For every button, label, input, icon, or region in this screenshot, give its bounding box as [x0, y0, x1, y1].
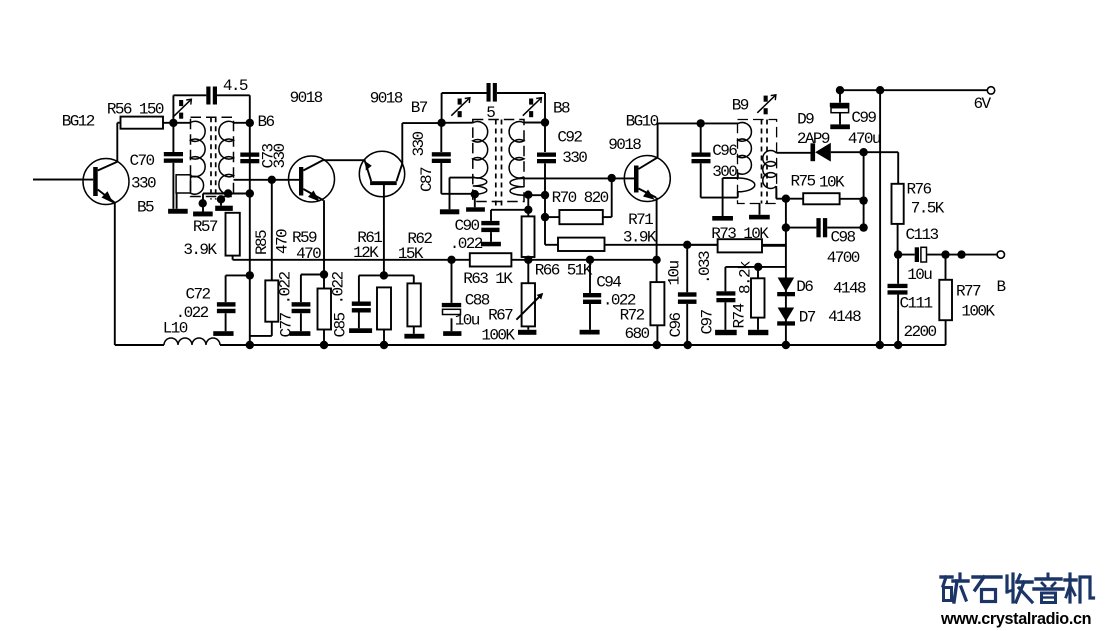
svg-text:5: 5 [486, 104, 495, 122]
svg-text:BG10: BG10 [626, 112, 659, 130]
svg-text:D9: D9 [797, 111, 814, 129]
svg-text:12K: 12K [353, 244, 379, 262]
svg-text:R63 1K: R63 1K [463, 270, 513, 288]
svg-text:10K: 10K [819, 174, 845, 192]
svg-text:.022: .022 [450, 235, 483, 253]
svg-text:330: 330 [410, 131, 428, 156]
svg-text:9018: 9018 [608, 136, 641, 154]
svg-text:B5: B5 [137, 199, 154, 217]
svg-text:B9: B9 [732, 97, 749, 115]
svg-text:680: 680 [625, 325, 650, 343]
svg-text:3.9K: 3.9K [183, 241, 217, 259]
svg-text:R76: R76 [907, 181, 932, 199]
svg-text:15K: 15K [398, 245, 424, 263]
svg-text:www.crystalradio.cn: www.crystalradio.cn [940, 610, 1091, 628]
svg-text:300: 300 [712, 163, 737, 181]
svg-text:470: 470 [274, 229, 292, 254]
svg-text:C96: C96 [667, 312, 685, 337]
svg-text:100K: 100K [481, 327, 515, 345]
svg-text:9018: 9018 [290, 89, 323, 107]
svg-text:R57: R57 [193, 218, 218, 236]
svg-text:C111: C111 [900, 295, 933, 313]
svg-text:R67: R67 [488, 307, 513, 325]
svg-text:C70: C70 [130, 152, 155, 170]
svg-text:6V: 6V [974, 95, 992, 113]
svg-text:.022: .022 [330, 271, 348, 304]
svg-text:330: 330 [562, 149, 587, 167]
svg-text:R59: R59 [292, 229, 317, 247]
svg-text:R70 820: R70 820 [552, 189, 609, 207]
svg-text:B7: B7 [411, 99, 428, 117]
svg-text:R66 51K: R66 51K [535, 262, 593, 280]
svg-text:8.2k: 8.2k [737, 261, 755, 294]
svg-text:4700: 4700 [827, 249, 860, 267]
svg-text:C85: C85 [332, 312, 350, 337]
svg-text:100K: 100K [961, 303, 995, 321]
svg-text:C97: C97 [699, 309, 717, 334]
svg-text:D7: D7 [799, 309, 816, 327]
svg-text:9018: 9018 [370, 90, 403, 108]
svg-text:R85: R85 [253, 230, 271, 255]
svg-text:R77: R77 [956, 282, 981, 300]
svg-text:D6: D6 [796, 278, 813, 296]
svg-text:10u: 10u [455, 312, 480, 330]
svg-text:C77: C77 [278, 312, 296, 337]
svg-text:C92: C92 [557, 128, 582, 146]
svg-text:C87: C87 [418, 167, 436, 192]
svg-text:BG12: BG12 [62, 113, 95, 131]
svg-text:330: 330 [271, 143, 289, 168]
svg-text:R75: R75 [791, 173, 816, 191]
svg-text:10u: 10u [666, 260, 684, 285]
svg-text:B6: B6 [258, 113, 275, 131]
svg-text:R72: R72 [620, 307, 645, 325]
svg-text:.022: .022 [277, 271, 295, 304]
svg-text:7.5K: 7.5K [911, 200, 945, 218]
svg-text:330: 330 [131, 174, 156, 192]
svg-text:R71: R71 [628, 211, 653, 229]
svg-text:470u: 470u [848, 130, 881, 148]
svg-text:4148: 4148 [828, 308, 861, 326]
svg-text:C98: C98 [831, 229, 856, 247]
svg-text:B: B [997, 278, 1006, 296]
svg-text:470: 470 [296, 245, 321, 263]
svg-text:C99: C99 [851, 109, 876, 127]
svg-text:L10: L10 [163, 320, 188, 338]
svg-text:R74: R74 [730, 303, 748, 328]
svg-text:C94: C94 [596, 273, 621, 291]
svg-text:4.5: 4.5 [223, 77, 248, 95]
svg-text:3.9K: 3.9K [623, 229, 657, 247]
svg-text:C72: C72 [186, 286, 211, 304]
svg-text:10u: 10u [907, 266, 932, 284]
svg-text:B8: B8 [553, 100, 570, 118]
svg-text:4148: 4148 [833, 280, 866, 298]
svg-text:C96: C96 [712, 142, 737, 160]
svg-text:R56 150: R56 150 [107, 101, 164, 119]
svg-text:C113: C113 [906, 226, 939, 244]
svg-text:2AP9: 2AP9 [797, 130, 830, 148]
svg-text:R73 10K: R73 10K [711, 225, 769, 243]
svg-text:C88: C88 [465, 292, 490, 310]
svg-text:C90: C90 [455, 217, 480, 235]
svg-text:2200: 2200 [904, 323, 937, 341]
svg-text:.033: .033 [696, 251, 714, 284]
